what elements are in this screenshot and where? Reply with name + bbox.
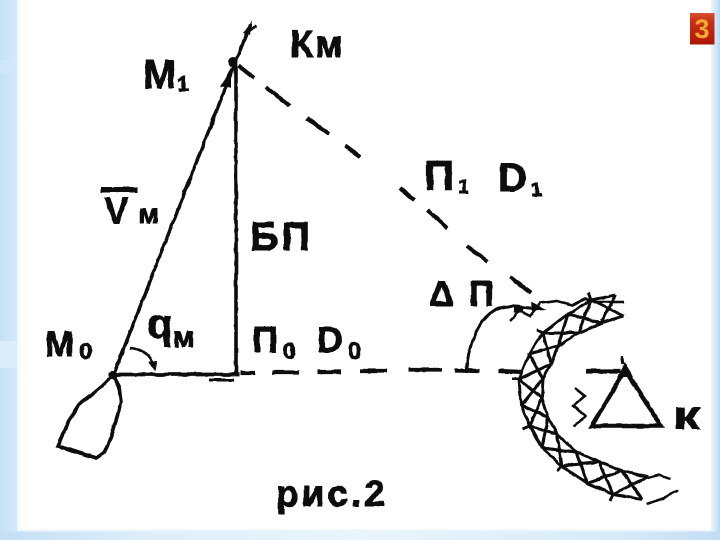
horizontal solid base line M0-P0 [108, 373, 239, 377]
svg-text:Км: Км [290, 24, 343, 66]
left strip inner fade [17, 0, 33, 540]
ship hull M0 [58, 375, 121, 458]
left blue frame strip [0, 0, 17, 540]
svg-text:к: к [673, 394, 701, 438]
coastline hatched crescent [512, 293, 648, 501]
landmark apex nub [622, 356, 623, 364]
course arrowhead Km tip [243, 21, 256, 35]
left strip light band [0, 341, 17, 368]
coastline bottom spur [640, 475, 678, 504]
coastline top spur [510, 299, 624, 321]
label Vm with overline [101, 187, 159, 231]
angle arc qm at ship [130, 348, 157, 371]
landmark apex dot [617, 362, 633, 377]
bottom blue frame strip [0, 532, 720, 540]
course line Km (ship course) [113, 25, 250, 376]
point M1 (dot) [228, 57, 238, 67]
landmark triangle K [592, 370, 661, 426]
coast spur near triangle [573, 388, 586, 426]
right-angle tick at BP base [209, 379, 234, 382]
delta-P arc with arrow [466, 302, 546, 373]
dashed base line P0 D0 to landmark [240, 370, 620, 373]
svg-text:рис.2: рис.2 [276, 473, 385, 514]
velocity vector arrowhead at M1 [220, 67, 231, 88]
svg-text:3: 3 [694, 14, 709, 44]
red page number box [690, 13, 715, 45]
bottom strip top line [17, 530, 712, 532]
right blue frame strip [711, 0, 720, 540]
dashed bearing line P1 from M1 [239, 66, 531, 293]
junction blob at M0 [109, 371, 118, 380]
vertical line BP [234, 64, 238, 374]
